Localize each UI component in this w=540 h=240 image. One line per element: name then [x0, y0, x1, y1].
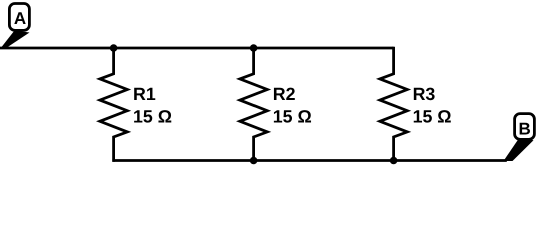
node A flag tail — [1, 31, 30, 49]
node B flag box — [515, 114, 535, 140]
svg-text:R2: R2 — [273, 84, 296, 104]
resistor R2 — [240, 48, 267, 162]
svg-text:B: B — [518, 120, 530, 139]
junction dot R3 bottom — [390, 157, 398, 165]
resistor R3 — [380, 47, 407, 162]
svg-text:A: A — [14, 9, 26, 28]
junction dot R1 top — [110, 44, 118, 52]
svg-text:15 Ω: 15 Ω — [413, 106, 452, 126]
svg-text:R1: R1 — [133, 84, 156, 104]
junction dot R2 top — [250, 44, 258, 52]
resistor R1 — [100, 48, 127, 162]
wire top (A to R3) — [0, 47, 394, 50]
junction dot R2 bottom — [250, 157, 258, 165]
node B flag tail — [504, 138, 534, 162]
wire bottom (R1 to B) — [112, 159, 506, 162]
svg-text:R3: R3 — [413, 84, 436, 104]
node A flag box — [9, 4, 29, 31]
svg-text:15 Ω: 15 Ω — [133, 106, 172, 126]
svg-text:15 Ω: 15 Ω — [273, 106, 312, 126]
